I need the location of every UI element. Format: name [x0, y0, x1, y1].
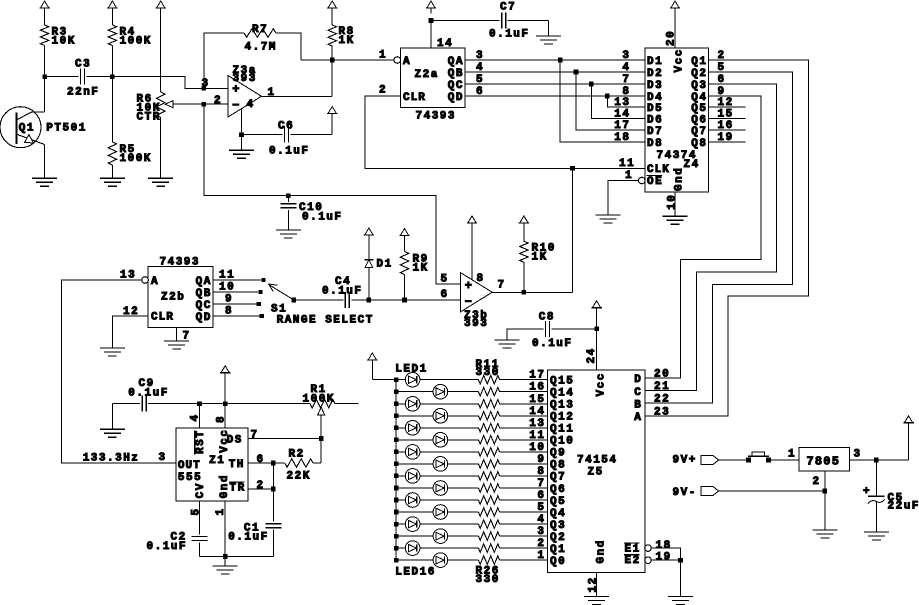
svg-text:330: 330	[476, 574, 500, 586]
svg-text:R2: R2	[289, 449, 305, 461]
svg-text:Z1: Z1	[209, 455, 225, 467]
svg-text:D8: D8	[647, 138, 663, 150]
svg-text:E1: E1	[625, 544, 641, 556]
svg-text:23: 23	[654, 406, 670, 418]
svg-text:22nF: 22nF	[67, 87, 99, 99]
svg-text:9V+: 9V+	[673, 454, 697, 466]
svg-text:Q3: Q3	[691, 80, 707, 92]
svg-text:12: 12	[123, 306, 139, 318]
svg-text:0.1uF: 0.1uF	[128, 387, 169, 399]
svg-text:13: 13	[614, 97, 630, 109]
svg-text:D5: D5	[647, 103, 663, 115]
svg-text:1: 1	[788, 449, 796, 461]
svg-text:22uF: 22uF	[888, 501, 919, 513]
svg-text:Q15: Q15	[550, 376, 574, 388]
svg-text:Vcc: Vcc	[595, 372, 607, 396]
svg-text:Z2b: Z2b	[161, 292, 185, 304]
svg-text:9V-: 9V-	[673, 487, 697, 499]
svg-text:Vcc: Vcc	[219, 428, 231, 452]
svg-text:0.1uF: 0.1uF	[302, 212, 343, 224]
svg-text:R7: R7	[252, 24, 268, 36]
svg-text:Gnd: Gnd	[674, 167, 686, 191]
svg-text:74393: 74393	[160, 257, 201, 269]
svg-text:3: 3	[476, 50, 484, 62]
svg-text:6: 6	[257, 454, 265, 466]
svg-text:5: 5	[190, 507, 202, 515]
svg-text:Q6: Q6	[691, 114, 707, 126]
svg-text:+: +	[232, 82, 239, 96]
svg-text:TR: TR	[230, 483, 246, 495]
svg-text:0.1uF: 0.1uF	[322, 285, 363, 297]
svg-text:2: 2	[813, 476, 821, 488]
svg-text:3: 3	[854, 449, 862, 461]
svg-text:22: 22	[654, 394, 670, 406]
svg-text:QA: QA	[448, 56, 464, 68]
svg-text:5: 5	[441, 274, 449, 286]
svg-text:6: 6	[476, 86, 484, 98]
svg-text:2: 2	[214, 95, 222, 107]
svg-text:7: 7	[251, 430, 259, 442]
svg-text:10K: 10K	[52, 36, 76, 48]
svg-text:7: 7	[183, 331, 191, 343]
svg-text:A: A	[403, 56, 411, 68]
svg-text:OUT: OUT	[178, 460, 201, 472]
svg-text:D1: D1	[377, 259, 393, 271]
svg-text:2: 2	[257, 480, 265, 492]
svg-text:TH: TH	[229, 459, 245, 471]
svg-text:74154: 74154	[577, 455, 618, 467]
svg-text:A: A	[151, 276, 159, 288]
svg-text:330: 330	[476, 367, 500, 379]
svg-text:1K: 1K	[532, 252, 548, 264]
svg-text:4.7M: 4.7M	[245, 42, 277, 54]
svg-text:QD: QD	[196, 312, 212, 324]
svg-text:LED16: LED16	[395, 566, 436, 578]
svg-text:C7: C7	[500, 2, 516, 14]
svg-text:14: 14	[437, 38, 453, 50]
svg-text:3: 3	[159, 452, 167, 464]
svg-text:4: 4	[622, 62, 630, 74]
svg-text:9: 9	[225, 294, 233, 306]
svg-text:RANGE SELECT: RANGE SELECT	[277, 314, 374, 326]
svg-text:QD: QD	[448, 92, 464, 104]
svg-text:17: 17	[614, 120, 630, 132]
svg-text:133.3Hz: 133.3Hz	[83, 452, 140, 464]
svg-text:QA: QA	[196, 276, 212, 288]
svg-text:0.1uF: 0.1uF	[532, 338, 573, 350]
svg-text:C: C	[634, 387, 642, 399]
svg-text:CLK: CLK	[647, 164, 670, 176]
svg-text:E2: E2	[625, 555, 641, 567]
svg-text:Q6: Q6	[550, 484, 566, 496]
svg-text:D2: D2	[647, 68, 663, 80]
svg-text:Q4: Q4	[550, 508, 566, 520]
svg-text:Gnd: Gnd	[219, 474, 231, 498]
svg-text:0.1uF: 0.1uF	[269, 146, 310, 158]
svg-text:12: 12	[587, 576, 599, 592]
svg-text:Q2: Q2	[691, 68, 707, 80]
svg-text:Q0: Q0	[550, 556, 566, 568]
svg-text:Z2a: Z2a	[415, 69, 439, 81]
svg-text:QB: QB	[448, 68, 464, 80]
svg-text:7805: 7805	[807, 454, 841, 468]
svg-text:21: 21	[654, 381, 670, 393]
svg-text:1: 1	[268, 87, 276, 99]
svg-text:Vcc: Vcc	[674, 48, 686, 72]
svg-text:+: +	[863, 486, 870, 498]
svg-text:+: +	[465, 279, 472, 293]
svg-text:20: 20	[654, 369, 670, 381]
svg-text:PT501: PT501	[46, 122, 87, 134]
svg-text:D3: D3	[647, 80, 663, 92]
svg-text:Z4: Z4	[684, 159, 700, 171]
svg-text:CTR: CTR	[137, 112, 161, 124]
svg-text:24: 24	[586, 347, 598, 363]
svg-text:CLR: CLR	[403, 92, 426, 104]
svg-text:18: 18	[614, 132, 630, 144]
svg-text:Q1: Q1	[691, 56, 707, 68]
svg-text:CV: CV	[195, 482, 207, 498]
svg-text:C3: C3	[75, 59, 91, 71]
svg-text:C6: C6	[278, 121, 294, 133]
svg-text:Q7: Q7	[691, 126, 707, 138]
svg-text:100K: 100K	[120, 153, 152, 165]
svg-text:10: 10	[667, 194, 679, 210]
svg-text:11: 11	[219, 270, 235, 282]
svg-text:20: 20	[666, 30, 678, 46]
svg-text:−: −	[465, 295, 472, 309]
svg-text:5: 5	[476, 74, 484, 86]
svg-text:Q7: Q7	[550, 472, 566, 484]
svg-text:B: B	[634, 399, 642, 411]
svg-text:7: 7	[498, 280, 506, 292]
svg-text:Q8: Q8	[550, 460, 566, 472]
svg-text:74393: 74393	[416, 111, 457, 123]
svg-text:22K: 22K	[287, 471, 311, 483]
svg-text:Gnd: Gnd	[595, 539, 607, 563]
svg-text:C8: C8	[539, 312, 555, 324]
svg-text:QC: QC	[196, 300, 212, 312]
svg-text:Q2: Q2	[550, 532, 566, 544]
svg-text:QC: QC	[448, 80, 464, 92]
svg-text:Q13: Q13	[550, 400, 574, 412]
svg-text:1K: 1K	[413, 263, 429, 275]
svg-text:A: A	[634, 412, 642, 424]
svg-text:D7: D7	[647, 126, 663, 138]
svg-text:LED1: LED1	[395, 364, 427, 376]
svg-text:QB: QB	[196, 288, 212, 300]
svg-text:19: 19	[656, 552, 672, 564]
svg-text:RST: RST	[195, 430, 207, 454]
svg-text:Q1: Q1	[550, 544, 566, 556]
svg-text:Q8: Q8	[691, 138, 707, 150]
svg-text:3: 3	[202, 78, 210, 90]
svg-text:Q3: Q3	[550, 520, 566, 532]
svg-text:Q11: Q11	[550, 424, 574, 436]
svg-text:8: 8	[225, 306, 233, 318]
svg-text:0.1uF: 0.1uF	[147, 541, 188, 553]
svg-text:D6: D6	[647, 114, 663, 126]
svg-text:1K: 1K	[339, 35, 355, 47]
svg-text:1: 1	[379, 50, 387, 62]
svg-text:393: 393	[464, 318, 488, 330]
svg-text:0.1uF: 0.1uF	[489, 29, 530, 41]
svg-text:0.1uF: 0.1uF	[228, 532, 269, 544]
svg-text:14: 14	[614, 109, 630, 121]
svg-text:Q14: Q14	[550, 388, 574, 400]
svg-text:D: D	[634, 374, 642, 386]
svg-text:Q9: Q9	[550, 448, 566, 460]
svg-text:OE: OE	[647, 176, 663, 188]
svg-text:4: 4	[476, 62, 484, 74]
svg-text:4: 4	[247, 99, 255, 111]
svg-text:3: 3	[622, 50, 630, 62]
svg-text:CLR: CLR	[151, 312, 174, 324]
svg-text:Q10: Q10	[550, 436, 574, 448]
svg-text:D1: D1	[647, 56, 663, 68]
svg-text:4: 4	[190, 413, 202, 421]
svg-text:7: 7	[622, 74, 630, 86]
svg-text:Q1: Q1	[19, 122, 35, 134]
svg-text:100K: 100K	[120, 36, 152, 48]
svg-text:Q5: Q5	[691, 103, 707, 115]
svg-text:6: 6	[441, 289, 449, 301]
svg-text:8: 8	[477, 273, 485, 285]
svg-text:Q5: Q5	[550, 496, 566, 508]
svg-text:11: 11	[619, 158, 635, 170]
svg-text:Z5: Z5	[588, 467, 604, 479]
svg-text:10: 10	[219, 282, 235, 294]
svg-text:8: 8	[216, 415, 228, 423]
svg-text:2: 2	[379, 85, 387, 97]
svg-text:Q12: Q12	[550, 412, 574, 424]
svg-text:100K: 100K	[303, 394, 335, 406]
svg-text:−: −	[232, 98, 239, 112]
svg-text:18: 18	[656, 540, 672, 552]
